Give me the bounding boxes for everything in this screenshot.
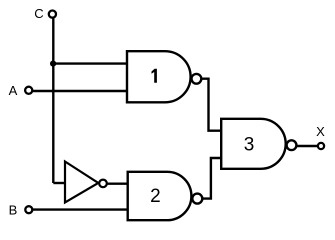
svg-text:A: A [9, 83, 18, 98]
svg-text:2: 2 [150, 186, 161, 207]
svg-text:X: X [316, 124, 325, 139]
svg-text:C: C [34, 6, 43, 21]
svg-text:B: B [9, 203, 18, 218]
svg-text:3: 3 [244, 134, 255, 155]
